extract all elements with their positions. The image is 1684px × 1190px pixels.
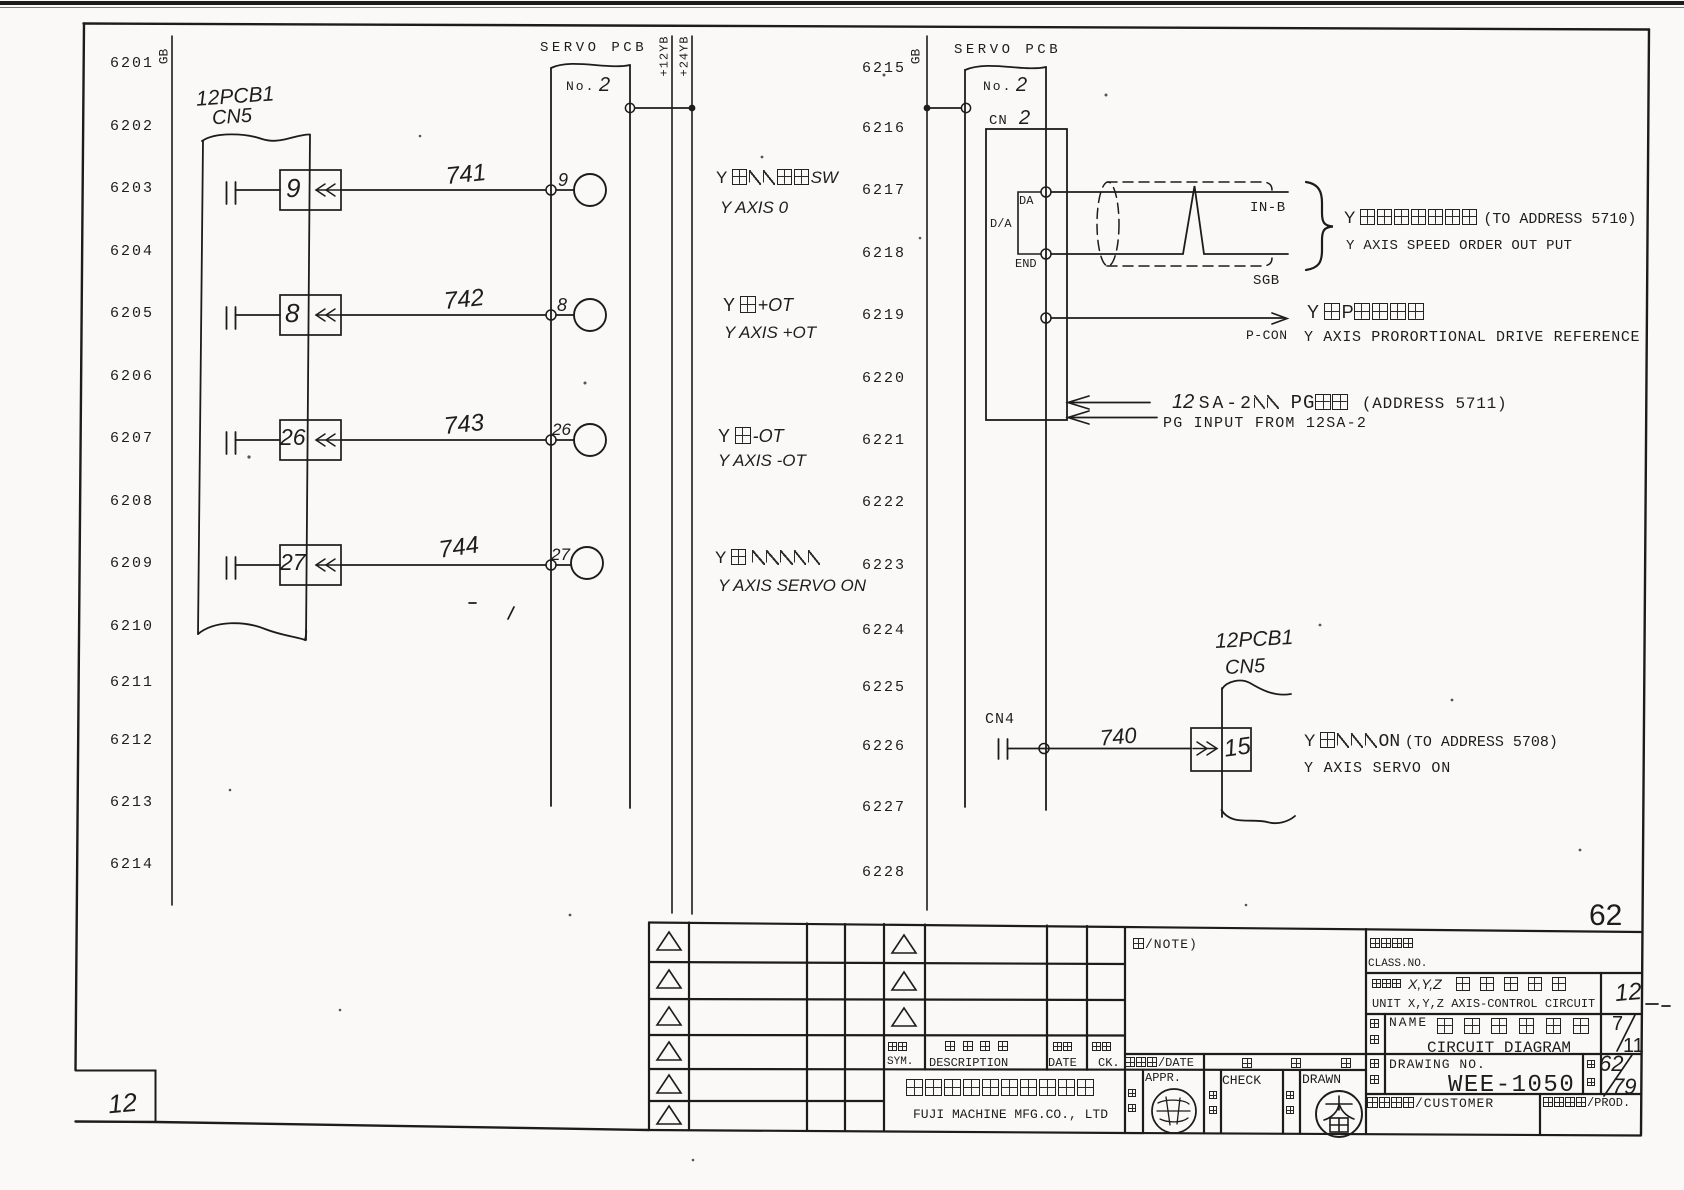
- +24YB bus: [691, 36, 693, 914]
- line number 6203: [110, 181, 154, 196]
- check col (jp): [1209, 1091, 1218, 1101]
- pin number 26: [552, 421, 571, 438]
- left GB bus: [171, 36, 173, 905]
- pin box digit 27: [280, 551, 306, 574]
- drawn stamp (Ota): [1316, 1091, 1362, 1137]
- annotation PG input (jp): [1172, 392, 1507, 413]
- wire 742: [341, 314, 546, 316]
- line number 6219: [862, 308, 906, 323]
- sheet number box 12: [76, 1071, 156, 1122]
- wire contact to pin box 26: [236, 439, 281, 441]
- node label GB left: [157, 49, 170, 65]
- class no (jp): [1370, 938, 1414, 951]
- line number 6210: [110, 619, 154, 634]
- pin number 27: [551, 546, 570, 563]
- terminal circle row 6203: [546, 185, 556, 195]
- company name fuji machine (en): [913, 1108, 1108, 1121]
- wire 743: [341, 439, 546, 441]
- company name fuji machine (jp): [906, 1079, 1096, 1100]
- servo pcb right title: [954, 43, 1061, 57]
- servo pcb right No.2: [983, 80, 1012, 93]
- terminal circle row 6207: [546, 435, 556, 445]
- line number 6222: [862, 495, 906, 510]
- line number 6227: [862, 800, 906, 815]
- pin number 8: [557, 296, 567, 314]
- wire label 741: [445, 161, 487, 189]
- pin box 26: [280, 420, 341, 460]
- revision triangles right column: [892, 935, 916, 1026]
- label IN-B: [1250, 201, 1286, 215]
- note cell: [1133, 938, 1198, 951]
- wire label 744: [438, 533, 481, 562]
- connector 12PCB1 CN5 left outline: [198, 134, 310, 640]
- description col: [945, 1041, 1009, 1054]
- pin DA: [1041, 187, 1051, 197]
- line number 6223: [862, 558, 906, 573]
- CN2 connector box: [986, 129, 1067, 420]
- pin box 15: [1191, 728, 1251, 771]
- CN4 contact: [999, 739, 1008, 759]
- NAME: [1389, 1016, 1428, 1029]
- arrow chevrons in box 27: [316, 559, 341, 571]
- annotation Y axis speed order (en): [1346, 239, 1572, 253]
- bus label +12YB: [659, 35, 671, 76]
- +12YB bus: [671, 36, 673, 913]
- arrow chevrons in box 8: [316, 309, 341, 321]
- annotation Y axis interlock: [715, 549, 822, 566]
- brace: [1306, 182, 1333, 270]
- annotation Y axis servo on (jp): [1304, 732, 1558, 751]
- line number 6216: [862, 121, 906, 136]
- label SGB: [1253, 274, 1280, 288]
- DRAWN: [1302, 1073, 1341, 1086]
- label D/A: [990, 218, 1012, 230]
- pin box 9: [280, 170, 341, 210]
- wire servo to +24YB: [635, 107, 692, 109]
- pin number 9: [558, 171, 568, 189]
- APPR.: [1145, 1072, 1181, 1084]
- CIRCUIT DIAGRAM: [1427, 1040, 1571, 1056]
- right GB bus: [926, 36, 928, 910]
- drawing number WEE-1050: [1448, 1074, 1575, 1098]
- wire 744: [341, 564, 546, 566]
- pin box digit 15: [1222, 734, 1252, 761]
- drawn col (jp): [1286, 1091, 1295, 1101]
- wire GB to servo (right): [927, 107, 961, 109]
- connector label 12PCB1 right: [1215, 627, 1294, 652]
- contact row 6203: [227, 182, 236, 204]
- line number 6218: [862, 246, 906, 261]
- DRAWING NO.: [1389, 1058, 1486, 1071]
- line number 6202: [110, 119, 154, 134]
- line number 6213: [110, 795, 154, 810]
- servo pcb no.2 left outline: [551, 64, 630, 808]
- line number 6226: [862, 739, 906, 754]
- annotation Y axis P operation (jp): [1307, 303, 1426, 321]
- prod cell: [1543, 1097, 1630, 1110]
- pin circle 26: [574, 424, 606, 456]
- wire contact to pin box 27: [236, 564, 281, 566]
- arrow chevrons in box 26: [316, 434, 341, 446]
- servo pcb left No.2: [566, 80, 595, 93]
- line number 6217: [862, 183, 906, 198]
- terminal circle row 6205: [546, 310, 556, 320]
- CHECK: [1222, 1074, 1261, 1087]
- line number 6214: [110, 857, 154, 872]
- pin END: [1041, 249, 1051, 259]
- paper top edge: [0, 1, 1684, 8]
- junction dot on +24YB: [689, 105, 696, 112]
- annotation Y axis servo on (en): [1304, 761, 1451, 776]
- wire contact to pin box 8: [236, 314, 281, 316]
- pin circle 27: [571, 547, 603, 579]
- revision triangles left column: [657, 932, 681, 1124]
- contact row 6209: [227, 557, 236, 579]
- line number 6224: [862, 623, 906, 638]
- terminal circle at right servo left edge: [961, 103, 970, 112]
- unit name (jp): [1372, 979, 1402, 991]
- wire contact to pin box 9: [236, 189, 281, 191]
- annotation Y axis speed order (jp): [1344, 209, 1636, 227]
- annotation Y axis proportional (en): [1304, 330, 1640, 345]
- line number 6209: [110, 556, 154, 571]
- line number 6225: [862, 680, 906, 695]
- annotation Y axis zero set SW: [716, 169, 838, 186]
- unit name (en): [1372, 998, 1595, 1010]
- PG input arrows: [1068, 396, 1157, 424]
- shield dashed cable: [1097, 182, 1272, 266]
- wire label 740: [1099, 724, 1137, 749]
- scanner specks: [229, 74, 1582, 1162]
- unit rev 12: [1614, 980, 1643, 1006]
- line number 6211: [110, 675, 154, 690]
- fraction slashes 7/11, 62/79, 12 dash: [1604, 1004, 1670, 1096]
- line number 6201: [110, 56, 154, 71]
- node label GB right: [909, 49, 922, 65]
- line number 6215: [862, 61, 906, 76]
- pin box 27: [280, 545, 341, 585]
- label P-CON: [1246, 329, 1288, 342]
- terminal circle row 6209: [546, 560, 556, 570]
- label DA: [1019, 195, 1033, 207]
- sheet number 12: [107, 1089, 138, 1117]
- annotation PG input (en): [1163, 416, 1367, 431]
- date col: [1053, 1042, 1073, 1054]
- line number 6212: [110, 733, 154, 748]
- connector label 12PCB1: [195, 83, 274, 109]
- drawing no cell (jp): [1370, 1059, 1380, 1071]
- arrow chevrons in box 9: [316, 184, 341, 196]
- line number 6221: [862, 433, 906, 448]
- wire 740: [1008, 748, 1192, 750]
- ck col: [1092, 1042, 1112, 1054]
- pin box digit 26: [280, 426, 306, 449]
- pin box 8: [280, 295, 341, 335]
- pin circle 9: [574, 174, 606, 206]
- class no: [1368, 959, 1427, 970]
- wire label 743: [443, 411, 485, 439]
- terminal circle at servo right edge: [625, 103, 634, 112]
- servo pcb no.2 right outline: [965, 66, 1046, 810]
- terminal circle CN4 wire: [1039, 744, 1049, 754]
- line number 6206: [110, 369, 154, 384]
- year month day: [1242, 1058, 1253, 1071]
- line number 6228: [862, 865, 906, 880]
- pin box digit 8: [285, 300, 299, 326]
- name cell (jp): [1370, 1019, 1380, 1031]
- pin box digit 9: [286, 175, 300, 201]
- IN-B wire: [1051, 191, 1288, 193]
- page cell (jp): [1587, 1060, 1596, 1070]
- annotation Y axis -OT: [718, 427, 784, 445]
- page number 62: [1589, 901, 1622, 931]
- date header: [1125, 1057, 1194, 1070]
- contact row 6205: [227, 307, 236, 329]
- sym col: [888, 1042, 908, 1054]
- pin circle 8: [574, 299, 606, 331]
- line number 6204: [110, 244, 154, 259]
- junction dot on right GB: [924, 105, 931, 112]
- line number 6205: [110, 306, 154, 321]
- D/A bracket: [1018, 192, 1041, 254]
- connector label CN2: [989, 114, 1008, 128]
- wire 741: [341, 189, 546, 191]
- approval stamp: [1152, 1089, 1196, 1133]
- line number 6208: [110, 494, 154, 509]
- page 62/79: [1599, 1053, 1623, 1075]
- wire label 742: [443, 286, 485, 314]
- contact row 6207: [227, 432, 236, 454]
- connector label CN4: [985, 712, 1015, 727]
- name (jp) denki kairo: [1437, 1018, 1590, 1037]
- title block lines: [649, 923, 1641, 1136]
- connector label CN5 right: [1225, 656, 1266, 678]
- SGB wire with pulse: [1051, 186, 1288, 254]
- line number 6207: [110, 431, 154, 446]
- stray pen marks: [469, 603, 514, 619]
- label END: [1015, 258, 1037, 270]
- arrow chevrons in box 15: [1193, 742, 1217, 755]
- P-CON wire with arrow: [1051, 313, 1287, 324]
- page 7/11: [1612, 1014, 1623, 1034]
- connector label CN5: [211, 106, 252, 129]
- pin P-CON: [1041, 313, 1051, 323]
- bus label +24YB: [679, 35, 691, 76]
- servo pcb left title: [540, 41, 647, 55]
- connector 12PCB1 CN5 right outline: [1222, 681, 1296, 824]
- annotation Y axis +OT: [723, 296, 793, 314]
- customer cell: [1367, 1097, 1494, 1110]
- approval col (jp): [1128, 1089, 1137, 1099]
- line number 6220: [862, 371, 906, 386]
